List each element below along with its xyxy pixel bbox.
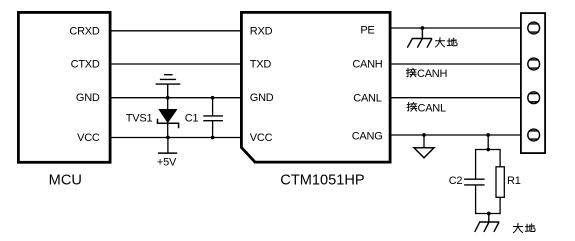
- svg-text:CANG: CANG: [352, 131, 383, 143]
- text dadi (bottom): [513, 223, 535, 232]
- wire RC top bar: [476, 149, 501, 151]
- text jie CANL: [407, 102, 417, 111]
- wire C2 branch upper: [475, 149, 477, 179]
- svg-text:MCU: MCU: [49, 173, 82, 189]
- junction GND/TVS: [166, 96, 170, 100]
- resistor R1: [496, 167, 504, 198]
- svg-text:TXD: TXD: [250, 59, 272, 71]
- wire CANL: [390, 97, 521, 99]
- wire CANH: [390, 63, 521, 65]
- wire CRXD-RXD: [112, 30, 241, 32]
- junction RC top: [486, 148, 490, 152]
- svg-text:GND: GND: [76, 92, 100, 104]
- svg-text:TVS1: TVS1: [126, 112, 153, 124]
- terminal block J1: [521, 13, 545, 153]
- wire CTXD-TXD: [112, 63, 241, 65]
- wire GND-GND: [112, 97, 241, 99]
- screw terminal 3: [528, 92, 540, 104]
- capacitor C1: [203, 98, 223, 138]
- MCU box U1: [18, 12, 110, 162]
- +5V power terminal: [158, 138, 177, 154]
- svg-text:CTM1051HP: CTM1051HP: [280, 173, 364, 189]
- capacitor C2: [464, 179, 485, 185]
- wire R1 branch upper: [499, 149, 501, 167]
- svg-text:CANH: CANH: [417, 68, 447, 80]
- svg-text:CTXD: CTXD: [71, 59, 100, 71]
- junction VCC/TVS: [166, 136, 170, 140]
- svg-text:RXD: RXD: [250, 25, 273, 37]
- signal ground above GND wire: [156, 75, 181, 98]
- svg-text:GND: GND: [250, 92, 274, 104]
- chassis ground triangle on CANG: [414, 135, 434, 158]
- CTM1051HP box U2: [241, 12, 390, 162]
- svg-text:CANL: CANL: [418, 102, 446, 114]
- svg-text:CANH: CANH: [352, 59, 382, 71]
- junction RC bottom: [487, 212, 491, 216]
- wire RC bottom bar: [475, 213, 501, 215]
- junction GND/C1: [211, 96, 215, 100]
- wire CANG: [390, 134, 521, 136]
- screw terminal 4: [528, 129, 540, 141]
- junction PE/earth: [421, 26, 425, 30]
- svg-text:VCC: VCC: [250, 132, 273, 144]
- svg-text:CRXD: CRXD: [69, 25, 99, 37]
- text dadi (top): [435, 38, 457, 47]
- wire VCC-VCC: [112, 137, 241, 139]
- svg-text:CANL: CANL: [353, 92, 381, 104]
- text jie CANH: [406, 68, 416, 77]
- junction VCC/C1: [211, 136, 215, 140]
- svg-text:C2: C2: [449, 175, 463, 187]
- svg-text:C1: C1: [185, 112, 199, 124]
- earth ground on PE: [407, 28, 432, 48]
- wire R1 branch lower: [499, 197, 501, 214]
- svg-text:R1: R1: [507, 175, 521, 187]
- svg-text:VCC: VCC: [77, 132, 100, 144]
- svg-text:+5V: +5V: [157, 157, 177, 169]
- wire CANG to RC top: [487, 135, 489, 150]
- junction CANG/RC: [486, 133, 490, 137]
- wire C2 branch lower: [475, 185, 477, 214]
- earth ground bottom: [475, 214, 500, 232]
- TVS diode TVS1: [158, 98, 179, 138]
- screw terminal 1: [528, 22, 540, 34]
- junction CANG/triangle: [422, 133, 426, 137]
- svg-text:PE: PE: [360, 25, 374, 37]
- screw terminal 2: [528, 58, 540, 70]
- wire PE: [390, 27, 521, 29]
